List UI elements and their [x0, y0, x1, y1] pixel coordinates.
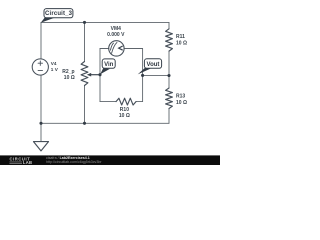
wire bottom rail — [41, 122, 169, 124]
svg-text:R10: R10 — [120, 107, 129, 113]
node junction dot Vin — [98, 73, 101, 76]
voltmeter needle arrowhead — [119, 46, 123, 50]
wire voltmeter left — [100, 48, 109, 50]
watermark bottom bar — [0, 155, 220, 165]
wire right rail lower — [168, 109, 170, 124]
potentiometer R2_p zigzag — [81, 62, 88, 86]
callout Circuit_3 pointer — [41, 17, 55, 23]
node junction dot pot-bottom — [83, 122, 86, 125]
svg-text:Vout: Vout — [147, 62, 160, 68]
node junction dot ground-left — [39, 122, 42, 125]
wire Vout vertical — [142, 49, 144, 102]
voltmeter VM4 — [109, 41, 124, 56]
svg-text:10 Ω: 10 Ω — [119, 113, 130, 119]
wire ground stem — [40, 123, 42, 141]
callout Vout box — [144, 59, 161, 69]
svg-text:Circuit_3: Circuit_3 — [45, 11, 73, 17]
wire left vertical upper — [40, 22, 42, 59]
svg-text:10 Ω: 10 Ω — [176, 100, 187, 106]
wire R10 right lead — [136, 101, 143, 103]
svg-text:10 Ω: 10 Ω — [64, 75, 75, 81]
wire top rail — [41, 21, 169, 23]
svg-text:R11: R11 — [176, 34, 185, 40]
svg-text:V4: V4 — [51, 61, 57, 66]
callout Circuit_3 box — [44, 9, 73, 18]
V4 plus sign — [38, 62, 42, 64]
wire right rail upper — [168, 22, 170, 28]
svg-text:R13: R13 — [176, 94, 185, 100]
svg-text:1 V: 1 V — [51, 67, 59, 72]
wire R10 left lead — [100, 101, 116, 103]
svg-text:Vin: Vin — [104, 62, 114, 68]
V4 minus sign — [38, 70, 42, 72]
resistor R10 zigzag — [116, 98, 136, 105]
wire left vertical lower — [40, 75, 42, 123]
CircuitLab logo — [10, 157, 33, 166]
wire voltmeter right — [124, 48, 143, 50]
potentiometer wiper arrow — [87, 73, 100, 77]
wire Vout node to right rail — [143, 74, 169, 76]
resistor R11 zigzag — [166, 29, 173, 51]
node junction dot right-rail — [167, 74, 170, 77]
callout Vin box — [102, 59, 115, 68]
wire pot top — [84, 22, 86, 61]
node junction dot Vout — [141, 74, 144, 77]
node junction dot pot-top — [83, 21, 86, 24]
wire Vin vertical — [99, 49, 101, 102]
wire wiper to Vin node — [89, 74, 100, 76]
callout Vin pointer — [100, 68, 110, 74]
wire pot bottom — [84, 86, 86, 124]
ground symbol — [34, 142, 49, 151]
voltage source V4 circle — [32, 59, 48, 75]
svg-text:10 Ω: 10 Ω — [176, 40, 187, 46]
wire right rail middle — [168, 51, 170, 88]
svg-text:LAB: LAB — [23, 160, 32, 165]
svg-text:http://circuitlab.com/c6qg5rk3: http://circuitlab.com/c6qg5rk3cv3br — [46, 160, 102, 164]
svg-text:R2_p: R2_p — [62, 69, 74, 75]
resistor R13 zigzag — [166, 88, 173, 109]
svg-text:0.000 V: 0.000 V — [107, 32, 125, 38]
callout Vout pointer — [138, 68, 151, 75]
